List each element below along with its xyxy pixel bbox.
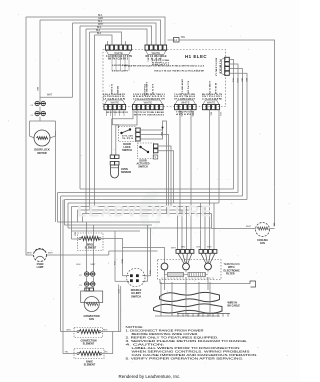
svg-text:2 N 12V CLN P1: 2 N 12V CLN P1 [112, 71, 129, 73]
svg-text:RED: RED [191, 112, 193, 117]
svg-text:TAN: TAN [181, 36, 186, 39]
wire [39, 107, 41, 114]
bake element (dashed box) [74, 349, 104, 359]
svg-text:WHT: WHT [207, 247, 212, 249]
wire [71, 207, 73, 240]
svg-text:LAMP: LAMP [37, 266, 44, 269]
connector J1 (bottom) [104, 100, 126, 110]
wire [72, 238, 80, 240]
svg-text:WHT: WHT [47, 95, 53, 97]
terminal block with electronic filter (dashed box) [158, 260, 222, 280]
svg-text:RED: RED [103, 330, 108, 332]
svg-text:WHITE: WHITE [181, 100, 190, 104]
svg-text:TN 4 L1 5: TN 4 L1 5 [143, 84, 146, 97]
wire [73, 23, 157, 45]
lower bus wires [58, 221, 161, 223]
converging pins into T3 [201, 253, 206, 263]
svg-text:BK CABLE: BK CABLE [228, 305, 241, 308]
wires down to terminal block [177, 214, 179, 250]
wire [85, 29, 87, 214]
pin labels J2 [133, 82, 166, 100]
wire stubs above P1 [107, 41, 109, 45]
wire [90, 32, 122, 45]
svg-text:WHITE: WHITE [207, 100, 216, 104]
wire [39, 117, 41, 121]
wire [86, 29, 147, 45]
node L1 junction box [168, 39, 174, 41]
oven lamp DS1 [26, 249, 33, 255]
filter components [168, 273, 184, 277]
wire YEL (J4) [218, 109, 220, 203]
wire YEL up [145, 228, 151, 276]
switch S3 [84, 272, 96, 276]
wire BLK to door lock switches [39, 20, 41, 104]
comb ticks on box bottom [162, 277, 213, 279]
pin labels J4 [202, 81, 223, 100]
svg-text:BLK: BLK [197, 247, 201, 249]
svg-text:BLK: BLK [96, 30, 101, 32]
svg-text:WHITE: WHITE [144, 100, 153, 104]
wire [57, 193, 59, 223]
connector J2 (bottom) [133, 100, 164, 110]
wire [158, 151, 174, 203]
door actuated switch (dashed box) [138, 143, 154, 159]
wire [65, 199, 248, 201]
op-amp U1: H1 ELEC electronic oven control (dashed enclosure) [103, 50, 226, 107]
wire WHT [212, 228, 256, 230]
connector on door actuated switch [154, 144, 158, 153]
pin stubs [111, 55, 113, 71]
svg-text:BU 9 6 4 BU L2: BU 9 6 4 BU L2 [215, 58, 218, 77]
wire stubs with labels below J1/J2 [106, 110, 108, 116]
wire [140, 121, 166, 214]
svg-text:Rendered by LeadVenture, Inc.: Rendered by LeadVenture, Inc. [119, 374, 181, 379]
relay pin row [124, 65, 205, 68]
wire into door lock switch [113, 110, 119, 128]
svg-text:GRN: GRN [98, 18, 103, 20]
svg-text:BLK: BLK [245, 78, 247, 83]
wire ORN [61, 331, 78, 333]
convection element (dashed box) [74, 328, 103, 338]
wire ORN to convection element [60, 196, 62, 332]
svg-text:WHITE: WHITE [114, 51, 123, 55]
svg-text:BLK: BLK [98, 15, 103, 17]
double hi limit switch S5 (dashed circle) [127, 268, 145, 286]
wire YEL [63, 353, 77, 355]
wire [78, 209, 192, 211]
ground stub [250, 281, 256, 287]
wire BLK [270, 228, 275, 230]
svg-text:L2 RD YL TN: L2 RD YL TN [208, 81, 210, 94]
svg-text:WH TN 7 P1 OVN OR 12V N 6: WH TN 7 P1 OVN OR 12V N 6 [134, 115, 165, 117]
svg-text:WHT: WHT [98, 24, 104, 26]
wire [83, 213, 212, 215]
wire YEL to bake element [62, 200, 64, 354]
svg-text:BK TN 2 CLN BU 3: BK TN 2 CLN BU 3 [108, 59, 129, 61]
switch S2 (unlock) [35, 111, 47, 115]
wire RED (J3) [179, 109, 181, 214]
wire [79, 26, 81, 189]
svg-text:SWITCH: SWITCH [122, 149, 132, 152]
svg-text:OR N WH 7 3: OR N WH 7 3 [180, 79, 182, 95]
resistor: bake element [79, 352, 100, 356]
svg-text:RED: RED [180, 112, 182, 117]
wire [68, 202, 219, 204]
wire RED up [145, 225, 148, 281]
svg-text:OVN L2 1 TN CLN 7 RD BK 3 P2 L: OVN L2 1 TN CLN 7 RD BK 3 P2 L2 TN CLN D… [154, 71, 204, 73]
connector J4 (bottom) [203, 100, 220, 110]
svg-text:RED: RED [120, 259, 122, 264]
pin labels P2 [146, 54, 167, 58]
connector on convection fan [85, 288, 89, 291]
wire [64, 200, 66, 226]
wire [40, 20, 161, 45]
wire [94, 35, 96, 207]
junction node [162, 127, 164, 129]
motor M1 [34, 130, 50, 146]
svg-text:FAN: FAN [260, 242, 265, 245]
convection fan M2 [81, 291, 103, 303]
wire [77, 210, 79, 222]
wire RED [101, 331, 121, 333]
svg-text:TAN: TAN [272, 223, 275, 227]
svg-text:5. VERIFY PROPER OPERATION AFT: 5. VERIFY PROPER OPERATION AFTER SERVICI… [126, 357, 244, 361]
resistor: convection element [79, 330, 99, 334]
svg-text:3 L2 OVN CLN 1 7 2 TN: 3 L2 OVN CLN 1 7 2 TN [106, 54, 132, 58]
svg-text:BRN: BRN [27, 253, 32, 255]
cable ribbon 1 [160, 292, 220, 301]
svg-text:6 1 P1 OR: 6 1 P1 OR [187, 81, 189, 95]
wire BLK [86, 222, 88, 272]
connector on door lock switch [136, 128, 140, 141]
wires below terminal block [164, 270, 166, 290]
pin labels P1 [106, 54, 132, 58]
svg-text:BLK: BLK [77, 264, 82, 266]
svg-text:RD 1 1 WH 4 DLB: RD 1 1 WH 4 DLB [146, 54, 167, 58]
svg-text:RED: RED [181, 247, 186, 249]
wire [61, 195, 243, 197]
svg-text:FAN: FAN [89, 318, 94, 321]
svg-text:BLK: BLK [74, 232, 76, 237]
watermark (decorative) [139, 191, 161, 234]
wire into hi limit [123, 275, 127, 277]
wire BLK [140, 128, 162, 140]
cable wires down [160, 282, 162, 316]
switch S1 (lock) [35, 101, 47, 105]
wire from motor loop down [55, 131, 57, 222]
wire YEL [114, 231, 116, 281]
wire [80, 26, 152, 45]
terminal T2 [183, 263, 190, 270]
wire [72, 206, 210, 208]
svg-text:WHT: WHT [48, 253, 53, 255]
pin labels J3 [174, 79, 196, 100]
wire YEL right [102, 332, 113, 354]
svg-text:WHT: WHT [91, 264, 97, 266]
svg-text:4 YL 12V: 4 YL 12V [122, 135, 134, 138]
resistor: broil element [81, 237, 99, 241]
wire TAN to cooling fan [179, 40, 275, 226]
svg-text:WHITE: WHITE [152, 51, 161, 55]
cable ribbon 2 [154, 304, 223, 313]
svg-text:ELEMENT: ELEMENT [83, 343, 95, 346]
node 1 tag [153, 155, 158, 159]
wire [95, 35, 113, 45]
svg-text:BLK: BLK [240, 78, 242, 83]
wire [158, 146, 171, 207]
wire [89, 32, 91, 210]
wire to term block left [109, 250, 158, 252]
svg-text:LEADVENTURE: LEADVENTURE [77, 204, 212, 221]
wire BLK to oven lamp [25, 17, 27, 249]
terminal T3 [205, 263, 212, 270]
wire pair down to elements [118, 285, 120, 332]
svg-text:OR L1 CLN OR OR GY: OR L1 CLN OR OR GY [106, 112, 129, 114]
connector J5 (right edge of board) [222, 57, 230, 75]
svg-text:SWITCH: SWITCH [138, 166, 148, 169]
wire RED to hi limit [122, 247, 124, 275]
door lock switch (dashed box) [119, 127, 136, 142]
wire [58, 192, 239, 194]
svg-text:WHITE: WHITE [111, 100, 120, 104]
svg-text:BLK: BLK [36, 87, 38, 92]
svg-text:ORN: ORN [66, 330, 71, 332]
svg-text:BLK: BLK [98, 21, 103, 23]
svg-text:BLK: BLK [97, 27, 102, 29]
broil element (dashed box) [78, 233, 104, 251]
wire [86, 277, 88, 284]
switch S4 [84, 282, 96, 286]
svg-text:N 7 DLB WH OVN 12V DLB P1 GY B: N 7 DLB WH OVN 12V DLB P1 GY BK OR CLN 6… [124, 65, 205, 68]
svg-text:SENSOR: SENSOR [121, 171, 131, 174]
wire to cooling fan [211, 214, 213, 229]
svg-text:FILTER: FILTER [226, 273, 235, 276]
svg-text:SWITCH: SWITCH [131, 295, 141, 298]
wire RED down [101, 239, 165, 248]
ticked rail [177, 313, 230, 315]
wire [164, 247, 166, 263]
wire [26, 17, 165, 45]
door lock motor M1 loop [30, 120, 56, 122]
svg-text:ORG: ORG [236, 78, 238, 83]
cooling fan M3 [256, 223, 270, 237]
wire [80, 188, 234, 190]
terminal T1 [161, 263, 168, 270]
svg-text:H1 ELEC: H1 ELEC [185, 54, 207, 59]
wires from J5 [229, 60, 233, 190]
connector P2 (top right, WHITE) [145, 45, 167, 55]
svg-text:P1 2 BK DLB: P1 2 BK DLB [219, 60, 221, 75]
wire [86, 287, 88, 290]
wire WHT [93, 225, 95, 272]
wire [47, 254, 109, 256]
connector P1 (top left, WHITE) [106, 45, 132, 55]
pin labels J1 [103, 84, 126, 100]
wire RED (J3) [190, 109, 192, 210]
svg-text:YL P1 8: YL P1 8 [122, 138, 133, 140]
pin labels P2 side notes [152, 60, 170, 67]
wire [82, 214, 84, 223]
svg-text:ELEMENT: ELEMENT [84, 364, 96, 367]
svg-text:BLK: BLK [160, 132, 162, 137]
svg-text:MOTOR: MOTOR [37, 152, 46, 155]
svg-text:WHT: WHT [246, 226, 252, 228]
oven temperature sensor [112, 110, 133, 119]
wire into hi limit [115, 280, 127, 282]
wire WHT [40, 96, 73, 98]
wire BLU (J4) [209, 109, 211, 207]
wire [140, 135, 168, 211]
connector J3 (bottom) [175, 100, 197, 110]
converging pins into T2 [178, 253, 184, 263]
bottom rail [155, 315, 220, 317]
connector strips on terminal block [176, 250, 217, 254]
svg-text:BLK: BLK [97, 33, 102, 35]
wire WHT to door lock motor [72, 23, 74, 97]
svg-text:BLU: BLU [209, 112, 211, 117]
wire [67, 203, 69, 228]
